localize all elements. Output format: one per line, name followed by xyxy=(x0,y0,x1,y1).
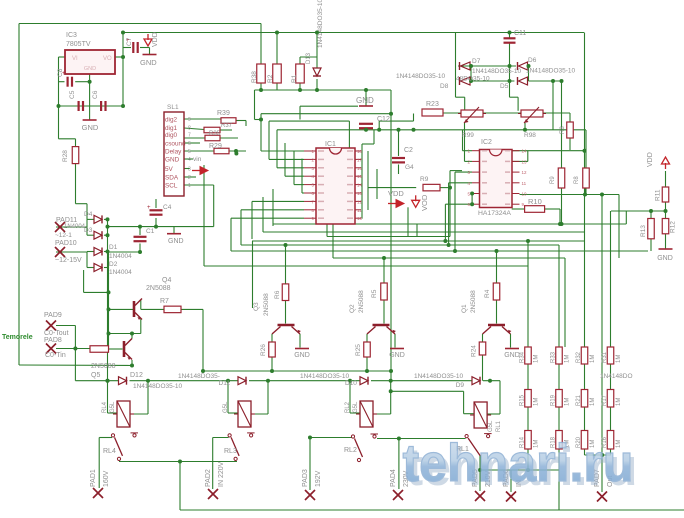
svg-text:1M: 1M xyxy=(565,398,571,406)
svg-text:D10: D10 xyxy=(345,380,357,387)
svg-text:VO: VO xyxy=(103,56,112,62)
svg-text:PAD4: PAD4 xyxy=(390,469,397,487)
svg-text:14: 14 xyxy=(522,149,528,154)
svg-text:1N4148DO35-10: 1N4148DO35-10 xyxy=(526,68,576,75)
svg-text:192V: 192V xyxy=(315,470,322,487)
svg-text:1M: 1M xyxy=(616,355,622,363)
svg-text:C0-Tin: C0-Tin xyxy=(45,352,66,359)
svg-text:PAD1: PAD1 xyxy=(90,469,97,487)
svg-text:G5L: G5L xyxy=(353,401,359,413)
svg-text:RL4: RL4 xyxy=(103,448,116,455)
svg-text:VI: VI xyxy=(72,56,78,62)
svg-text:R9: R9 xyxy=(550,176,556,184)
svg-text:vin: vin xyxy=(193,156,202,163)
svg-text:16: 16 xyxy=(357,166,363,171)
svg-text:IC2: IC2 xyxy=(481,139,492,146)
svg-text:~12-15V: ~12-15V xyxy=(55,257,82,264)
svg-text:G5L: G5L xyxy=(488,420,494,432)
svg-text:1N4148DO35-: 1N4148DO35- xyxy=(178,373,220,380)
svg-text:4: 4 xyxy=(188,157,191,163)
svg-text:R37: R37 xyxy=(221,123,233,129)
svg-text:5V: 5V xyxy=(165,166,174,173)
svg-text:csound: csound xyxy=(165,140,186,147)
svg-text:C0-Tout: C0-Tout xyxy=(44,330,69,337)
svg-text:G4: G4 xyxy=(405,164,414,171)
svg-text:Delay: Delay xyxy=(165,148,182,155)
svg-text:R26: R26 xyxy=(260,344,267,356)
svg-text:~12-1: ~12-1 xyxy=(55,232,72,239)
svg-text:2N5088: 2N5088 xyxy=(358,290,365,313)
svg-text:GND: GND xyxy=(389,352,405,359)
svg-text:D6: D6 xyxy=(528,57,537,64)
svg-text:GND: GND xyxy=(168,238,184,245)
svg-text:1N4148DO35-10: 1N4148DO35-10 xyxy=(396,73,446,80)
svg-text:13: 13 xyxy=(357,191,363,196)
svg-text:R1: R1 xyxy=(291,74,298,83)
svg-text:IC1: IC1 xyxy=(325,141,336,148)
svg-text:PAD11: PAD11 xyxy=(56,217,77,224)
svg-text:14: 14 xyxy=(357,183,363,188)
svg-text:dig2: dig2 xyxy=(165,116,178,123)
svg-text:D1: D1 xyxy=(109,244,118,251)
svg-text:R2: R2 xyxy=(267,74,274,83)
svg-text:10: 10 xyxy=(357,216,363,221)
svg-text:C8: C8 xyxy=(57,68,64,77)
svg-text:PAD3: PAD3 xyxy=(302,469,309,487)
svg-text:PAD8: PAD8 xyxy=(44,337,62,344)
svg-text:R23: R23 xyxy=(426,101,439,108)
svg-text:D8: D8 xyxy=(440,83,449,90)
svg-text:R38: R38 xyxy=(251,71,258,83)
svg-text:R98: R98 xyxy=(524,132,536,139)
svg-text:Q4: Q4 xyxy=(162,277,171,284)
svg-text:1M: 1M xyxy=(534,355,540,363)
svg-text:SCL: SCL xyxy=(165,182,178,189)
svg-text:VDD: VDD xyxy=(152,32,159,47)
svg-text:C1: C1 xyxy=(146,228,155,235)
svg-text:11: 11 xyxy=(357,208,362,213)
svg-text:3: 3 xyxy=(188,167,191,173)
svg-text:D2: D2 xyxy=(109,261,118,268)
svg-text:RL3: RL3 xyxy=(224,448,237,455)
svg-text:R11: R11 xyxy=(655,189,662,201)
svg-text:160V: 160V xyxy=(103,470,110,487)
svg-text:GND: GND xyxy=(504,352,520,359)
svg-text:1M: 1M xyxy=(590,398,596,406)
svg-text:GND: GND xyxy=(140,58,157,67)
svg-text:1: 1 xyxy=(188,183,191,189)
svg-text:D9: D9 xyxy=(456,382,465,389)
svg-text:2N5088: 2N5088 xyxy=(91,363,116,370)
svg-text:R31: R31 xyxy=(602,351,608,363)
svg-text:R32: R32 xyxy=(576,351,582,363)
svg-text:R21: R21 xyxy=(576,394,582,406)
svg-text:9: 9 xyxy=(188,117,191,123)
svg-text:R4: R4 xyxy=(484,289,491,298)
svg-text:7805TV: 7805TV xyxy=(66,41,91,48)
svg-text:R19: R19 xyxy=(551,394,557,406)
svg-text:HA17324A: HA17324A xyxy=(478,210,511,217)
svg-text:IN 220V: IN 220V xyxy=(218,461,225,487)
svg-text:C12: C12 xyxy=(377,116,390,123)
svg-text:1N4004: 1N4004 xyxy=(109,269,132,276)
svg-text:GND: GND xyxy=(84,66,96,72)
svg-text:12: 12 xyxy=(522,170,528,175)
svg-text:10: 10 xyxy=(522,192,528,197)
svg-text:GND: GND xyxy=(165,156,180,163)
svg-text:GND: GND xyxy=(657,255,673,262)
svg-text:G5L: G5L xyxy=(110,401,116,413)
svg-text:PAD10: PAD10 xyxy=(55,240,77,247)
svg-text:SL1: SL1 xyxy=(167,104,179,111)
svg-text:RL1: RL1 xyxy=(496,420,502,432)
svg-text:17: 17 xyxy=(357,157,363,162)
svg-text:R10: R10 xyxy=(528,197,542,206)
svg-text:R15: R15 xyxy=(520,394,526,406)
svg-text:+: + xyxy=(147,205,151,211)
svg-text:C7: C7 xyxy=(126,37,133,46)
svg-text:1N4148DO35-10: 1N4148DO35-10 xyxy=(472,68,522,75)
svg-text:VDD: VDD xyxy=(647,152,654,167)
svg-text:GND: GND xyxy=(82,123,99,132)
svg-text:2N5088: 2N5088 xyxy=(146,285,171,292)
svg-text:R8: R8 xyxy=(560,126,566,134)
svg-text:1N4148DO35-10: 1N4148DO35-10 xyxy=(133,383,183,390)
svg-text:1N4148DO35-10: 1N4148DO35-10 xyxy=(300,373,350,380)
svg-text:tehnari.ru: tehnari.ru xyxy=(403,434,634,493)
svg-text:R12: R12 xyxy=(670,221,677,233)
svg-text:48DO35-10: 48DO35-10 xyxy=(456,76,490,83)
svg-text:R13: R13 xyxy=(640,225,647,237)
svg-text:R28: R28 xyxy=(62,150,69,162)
svg-text:18: 18 xyxy=(357,149,363,154)
svg-text:R7: R7 xyxy=(160,298,169,305)
svg-text:Temorele: Temorele xyxy=(2,334,33,341)
svg-text:VOD: VOD xyxy=(420,194,429,211)
svg-text:SDA: SDA xyxy=(165,174,179,181)
svg-text:R33: R33 xyxy=(551,351,557,363)
svg-text:1M: 1M xyxy=(565,355,571,363)
svg-text:1N4004: 1N4004 xyxy=(109,253,132,260)
svg-text:R17: R17 xyxy=(602,394,608,406)
svg-text:D13: D13 xyxy=(306,52,312,64)
svg-text:GND: GND xyxy=(356,96,374,105)
svg-text:-R35: -R35 xyxy=(207,131,221,137)
svg-text:C2: C2 xyxy=(404,147,413,154)
svg-text:Q3: Q3 xyxy=(253,302,260,311)
svg-text:2N5088: 2N5088 xyxy=(470,290,477,313)
svg-text:12: 12 xyxy=(357,199,363,204)
svg-text:VDD: VDD xyxy=(388,189,404,198)
svg-text:G5L: G5L xyxy=(223,401,229,413)
svg-text:RL2: RL2 xyxy=(344,447,357,454)
svg-text:D4: D4 xyxy=(84,211,93,218)
svg-text:7: 7 xyxy=(188,133,191,139)
svg-text:1N4004: 1N4004 xyxy=(64,224,86,230)
svg-text:PAD9: PAD9 xyxy=(44,312,62,319)
svg-text:1N4148DO35-10: 1N4148DO35-10 xyxy=(317,0,324,48)
svg-text:8: 8 xyxy=(188,126,191,132)
svg-text:R25: R25 xyxy=(355,344,362,356)
svg-text:IC3: IC3 xyxy=(66,32,77,39)
svg-text:6: 6 xyxy=(188,141,191,147)
svg-text:D12: D12 xyxy=(130,372,143,379)
svg-text:RL2: RL2 xyxy=(345,401,351,413)
svg-text:D5: D5 xyxy=(500,83,509,90)
svg-text:C5: C5 xyxy=(69,90,76,99)
svg-text:1N4148DO: 1N4148DO xyxy=(600,373,633,380)
svg-text:2N5088: 2N5088 xyxy=(263,293,270,316)
svg-text:R9: R9 xyxy=(420,176,429,183)
svg-text:R8: R8 xyxy=(574,176,580,184)
svg-text:Q5: Q5 xyxy=(91,372,100,379)
svg-text:R5: R5 xyxy=(371,289,378,298)
svg-text:1M: 1M xyxy=(616,398,622,406)
svg-text:5: 5 xyxy=(188,149,191,155)
svg-text:C4: C4 xyxy=(163,204,172,211)
svg-text:13: 13 xyxy=(522,159,528,164)
svg-text:D7: D7 xyxy=(472,58,481,65)
svg-text:R6: R6 xyxy=(274,290,281,299)
svg-text:11: 11 xyxy=(522,181,527,186)
svg-text:R29: R29 xyxy=(209,143,222,150)
svg-text:Q2: Q2 xyxy=(349,304,356,313)
svg-text:2: 2 xyxy=(188,175,191,181)
svg-text:R24: R24 xyxy=(471,345,478,357)
svg-text:dig0: dig0 xyxy=(165,132,178,139)
svg-text:15: 15 xyxy=(357,174,363,179)
svg-text:C11: C11 xyxy=(514,30,526,37)
svg-text:1M: 1M xyxy=(590,355,596,363)
svg-text:D3: D3 xyxy=(84,227,93,234)
svg-text:R99: R99 xyxy=(462,132,474,139)
svg-text:RL4: RL4 xyxy=(102,401,108,413)
svg-text:R34: R34 xyxy=(520,351,526,363)
svg-text:PAD2: PAD2 xyxy=(205,469,212,487)
svg-text:GND: GND xyxy=(294,352,310,359)
svg-text:R39: R39 xyxy=(217,110,230,117)
svg-text:C6: C6 xyxy=(92,90,99,99)
svg-text:1M: 1M xyxy=(534,398,540,406)
svg-text:Q1: Q1 xyxy=(461,304,468,313)
svg-text:1N4148DO35-10: 1N4148DO35-10 xyxy=(414,373,464,380)
svg-text:D11: D11 xyxy=(219,380,231,387)
